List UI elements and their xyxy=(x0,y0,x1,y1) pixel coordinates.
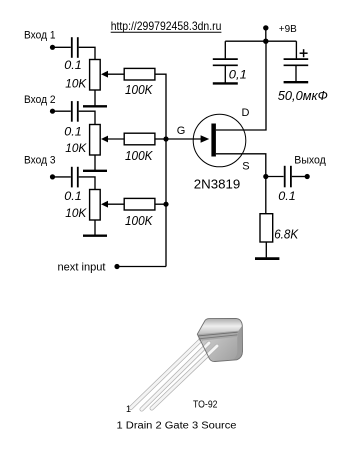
lead 2 xyxy=(142,343,209,409)
wire R5 to gate node xyxy=(155,138,166,140)
resistor R7 6.8K xyxy=(260,214,273,242)
wire wiper2 to R5 xyxy=(107,138,124,140)
potentiometer R2 wiper arrow xyxy=(101,136,108,143)
potentiometer R3 wiper arrow xyxy=(101,201,108,208)
node junction +9V rail xyxy=(263,39,268,44)
wire C2 to R2 pot xyxy=(79,111,95,124)
svg-text:TO-92: TO-92 xyxy=(193,399,218,411)
node input2 terminal xyxy=(50,109,55,114)
node junction gate bus / R6 xyxy=(163,202,168,207)
wire C5 to ground xyxy=(295,66,297,81)
wire rail to C5 xyxy=(295,41,297,58)
svg-text:0,1: 0,1 xyxy=(229,68,247,82)
wire source of Q1 down xyxy=(216,154,266,177)
node input3 terminal xyxy=(50,174,55,179)
ground under C5 xyxy=(284,81,309,83)
svg-text:0.1: 0.1 xyxy=(278,189,296,203)
resistor R5 100K input2 xyxy=(124,133,155,145)
svg-text:0.1: 0.1 xyxy=(64,189,82,203)
wire R1 bottom to ground xyxy=(94,90,96,106)
lead 3 xyxy=(152,346,217,408)
potentiometer R2 10K xyxy=(90,125,101,156)
svg-text:next input: next input xyxy=(58,261,106,273)
svg-text:S: S xyxy=(242,160,249,172)
svg-text:D: D xyxy=(242,107,250,119)
svg-text:+9В: +9В xyxy=(279,23,297,35)
node URL label xyxy=(111,20,222,33)
svg-text:Выход: Выход xyxy=(294,154,326,166)
svg-text:1: 1 xyxy=(126,404,131,414)
transistor Q1 2N3819 envelope xyxy=(193,114,246,167)
node next input terminal xyxy=(114,264,119,269)
node output terminal xyxy=(305,174,310,179)
body outline xyxy=(197,318,242,361)
wire R4 to gate bus xyxy=(155,74,166,139)
wire wiper1 to R4 xyxy=(107,73,124,75)
ground under R1 xyxy=(83,105,107,107)
capacitor C5 polarity plus xyxy=(300,49,308,57)
capacitor C1 0.1 input1 xyxy=(72,37,78,58)
capacitor C5 50,0мкФ electrolytic xyxy=(284,59,309,65)
wire gate bus vertical xyxy=(165,139,167,267)
wire input2 to C2 xyxy=(53,110,71,112)
svg-text:0.1: 0.1 xyxy=(64,58,82,72)
svg-text:6.8K: 6.8K xyxy=(274,228,299,242)
wire R3 bottom to ground xyxy=(94,220,96,235)
body base xyxy=(197,318,242,361)
capacitor C6 0.1 output xyxy=(285,166,291,188)
ground under R3 xyxy=(83,234,107,236)
lead 1 xyxy=(131,340,201,408)
svg-text:100K: 100K xyxy=(125,214,153,228)
resistor R4 100K input1 xyxy=(124,68,155,80)
wire input1 to C1 xyxy=(53,46,71,48)
wire R7 to ground xyxy=(265,242,267,257)
svg-text:Вход 2: Вход 2 xyxy=(24,94,56,106)
svg-text:Вход 3: Вход 3 xyxy=(24,155,56,167)
svg-text:0.1: 0.1 xyxy=(64,124,82,138)
ground under C4 xyxy=(213,82,238,84)
node junction gate bus / R5 / G xyxy=(163,136,168,141)
wire R2 bottom to ground xyxy=(94,155,96,170)
capacitor C3 0.1 input3 xyxy=(72,167,78,188)
ground under R7 xyxy=(255,257,279,260)
wire C6 to output terminal xyxy=(292,176,307,178)
resistor R6 100K input3 xyxy=(124,198,155,210)
transistor TO-92 body with leads xyxy=(131,318,243,409)
svg-text:10K: 10K xyxy=(65,206,87,220)
svg-text:10K: 10K xyxy=(65,77,87,91)
potentiometer R3 10K xyxy=(90,190,101,221)
svg-text:100K: 100K xyxy=(125,149,153,163)
svg-text:1 Drain 2 Gate 3 Source: 1 Drain 2 Gate 3 Source xyxy=(117,421,238,432)
svg-text:50,0мкФ: 50,0мкФ xyxy=(278,89,328,103)
wire +9V terminal to rail xyxy=(265,28,267,41)
wire junction to C6 xyxy=(266,176,284,178)
potentiometer R1 10K xyxy=(90,60,101,91)
svg-text:10K: 10K xyxy=(65,141,87,155)
chamfer band xyxy=(197,331,238,341)
wire wiper3 to R6 xyxy=(107,203,124,205)
transistor Q1 channel bar xyxy=(211,124,216,157)
wire C3 to R3 pot xyxy=(79,177,95,190)
node input1 terminal xyxy=(50,45,55,50)
ground under R2 xyxy=(83,170,107,172)
capacitor C4 0,1 bypass xyxy=(213,59,238,65)
wire drain of Q1 to +9V rail xyxy=(216,41,266,130)
wire C4 to ground xyxy=(224,66,226,83)
svg-text:Вход 1: Вход 1 xyxy=(24,30,56,42)
svg-text:G: G xyxy=(177,125,186,137)
gate arrowhead of Q1 xyxy=(201,135,210,143)
capacitor C2 0.1 input2 xyxy=(72,101,78,122)
wire R6 to gate bus xyxy=(155,203,166,205)
wire +9V rail horizontal xyxy=(225,40,296,42)
wire G to gate of Q1 xyxy=(166,138,206,140)
node +9V terminal xyxy=(263,25,268,30)
wire next input xyxy=(117,266,166,268)
svg-text:2N3819: 2N3819 xyxy=(194,176,241,191)
potentiometer R1 wiper arrow xyxy=(101,71,108,78)
svg-text:100K: 100K xyxy=(125,83,153,97)
right end shading xyxy=(233,318,243,360)
wire C1 to R1 pot xyxy=(79,47,95,59)
svg-text:http://299792458.3dn.ru: http://299792458.3dn.ru xyxy=(111,20,222,33)
node junction source / C6 / R7 xyxy=(263,174,268,179)
wire input3 to C3 xyxy=(53,176,71,178)
top face xyxy=(197,318,242,334)
wire rail to C4 xyxy=(224,41,226,58)
wire junction to R7 xyxy=(265,177,267,214)
